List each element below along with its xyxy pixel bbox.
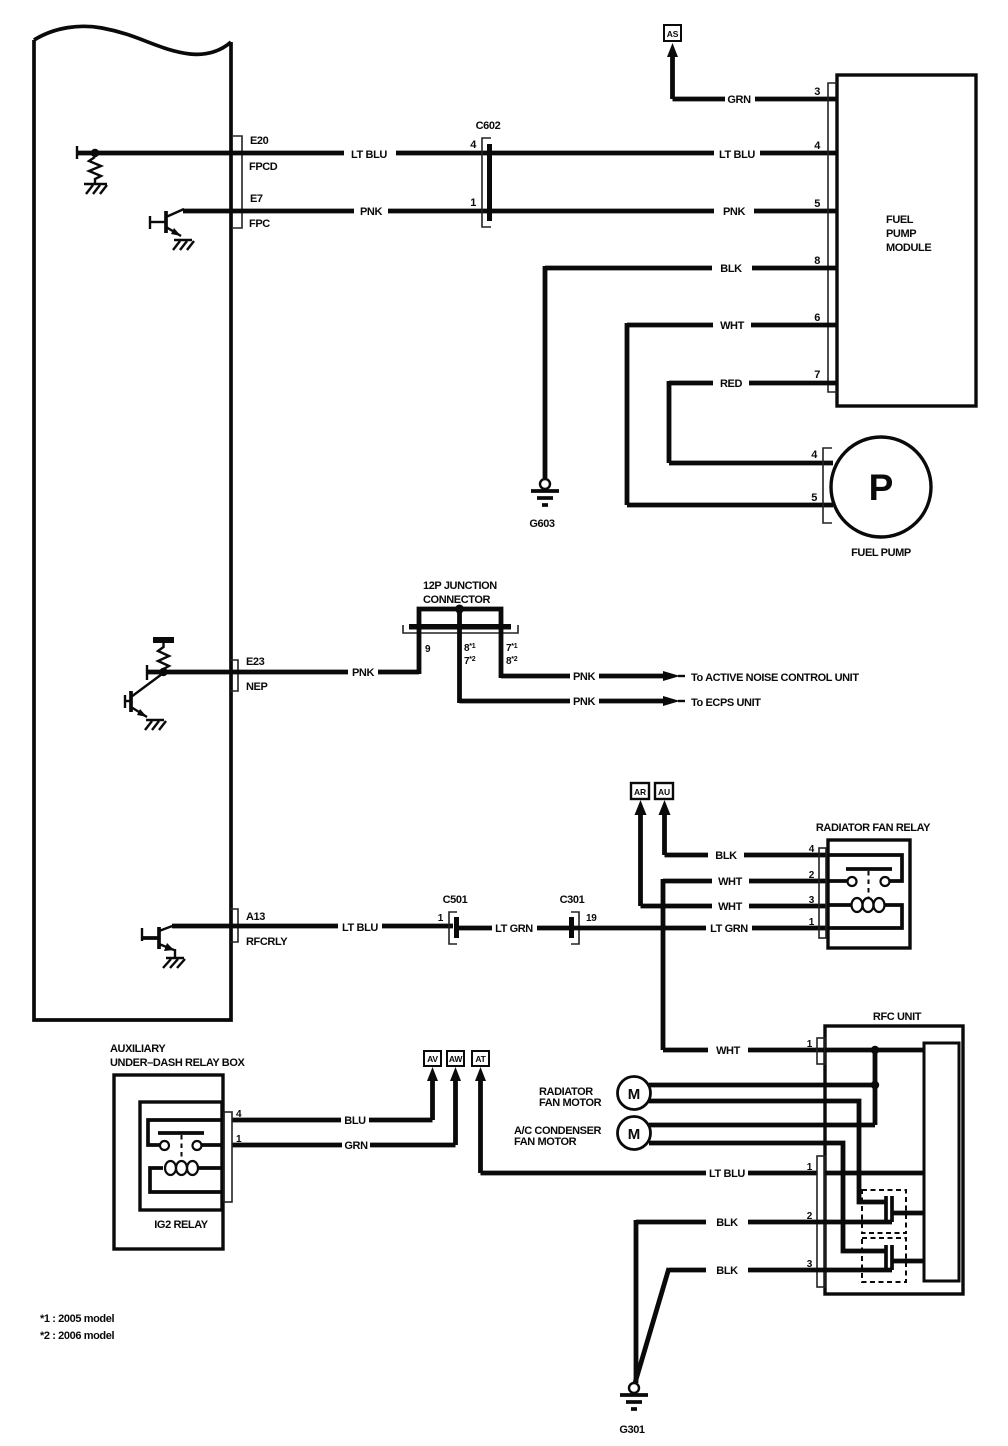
svg-text:C602: C602 [476,120,501,132]
resistor (NEP pull-up) [158,647,169,672]
connector C301 [569,912,579,944]
wire PNK to active noise control unit [501,671,685,681]
svg-text:1: 1 [236,1134,242,1145]
wire BLK inside RFC pin3 to FET2 [825,1268,892,1273]
connector bracket (fuel pump) [823,448,832,523]
node E23 internal: supply bar [153,640,174,648]
IG2 switch bar [158,1131,204,1135]
svg-text:P: P [869,467,894,508]
svg-text:RFCRLY: RFCRLY [246,936,288,948]
svg-text:AS: AS [667,29,679,39]
svg-text:4: 4 [809,844,815,855]
PCM/ECM main control module box (torn wavy top) [34,26,231,1020]
ground (NEP emitter) [145,720,166,730]
svg-text:1: 1 [807,1162,813,1173]
connector AR [631,783,649,799]
svg-text:LT BLU: LT BLU [709,1168,745,1180]
wire PNK to ECPS unit [460,696,686,706]
svg-text:G603: G603 [529,518,555,530]
relay internals: pin4 feed [828,855,902,881]
RFC inner module rect [924,1043,959,1281]
svg-text:E20: E20 [250,135,269,147]
IG2 coil [150,1161,222,1192]
transistor Q (FPC driver) base tick [149,216,151,229]
svg-text:IG2 RELAY: IG2 RELAY [154,1219,209,1231]
relay switch bar [846,867,892,871]
svg-text:3: 3 [814,86,820,98]
wire pin 8/7 stub (to ECPS) [457,629,462,703]
svg-text:5: 5 [814,198,820,210]
svg-text:3: 3 [807,1259,813,1270]
wire GRN to AS with arrow [667,43,837,99]
svg-text:LT BLU: LT BLU [351,149,387,161]
svg-text:GRN: GRN [727,94,751,106]
svg-text:6: 6 [814,312,820,324]
svg-text:AU: AU [658,787,670,797]
wire AR to WHT pin3 [635,800,829,906]
svg-text:FAN MOTOR: FAN MOTOR [539,1097,602,1109]
svg-text:RFC UNIT: RFC UNIT [873,1011,922,1023]
connector C602 [482,138,492,227]
wire PNK (E7 to fuel pump module pin 5) [183,209,837,214]
svg-text:2: 2 [807,1211,813,1222]
wire AU to BLK pin4 [659,800,829,855]
svg-text:PNK: PNK [573,696,595,708]
svg-text:AR: AR [634,787,646,797]
svg-text:3: 3 [809,895,815,906]
connector C501 [449,912,459,944]
relay contact right [881,877,890,886]
svg-text:CONNECTOR: CONNECTOR [423,594,491,606]
motor M a/c condenser fan motor [618,1117,651,1150]
wire pin 9 stub [417,629,422,674]
wire GRN (IG2 pin1 to AW) [232,1067,461,1145]
transistor Q (FPC driver) [150,209,184,236]
svg-text:LT GRN: LT GRN [495,923,533,935]
wire WHT (pin 6 to fuel pump pin 5) [627,323,837,505]
connector AU [655,783,673,799]
svg-text:MODULE: MODULE [886,242,931,254]
svg-text:BLK: BLK [716,1217,738,1229]
motor P fuel pump [831,437,931,537]
node E20 internal: supply tick [76,146,78,159]
svg-text:M: M [628,1126,641,1143]
svg-text:To ACTIVE NOISE CONTROL UNIT: To ACTIVE NOISE CONTROL UNIT [691,672,859,684]
svg-text:WHT: WHT [716,1045,741,1057]
wire LT GRN (C501 to C301) [459,926,570,931]
transistor Q (NEP) [125,674,162,717]
svg-text:PNK: PNK [723,206,745,218]
svg-text:*2 : 2006 model: *2 : 2006 model [40,1330,114,1342]
connector AV [424,1051,441,1066]
junction at E20 resistor [91,149,99,157]
wire BLU (IG2 pin4 to AV) [232,1067,438,1120]
pin label 8*1 7*2 [464,643,476,667]
svg-text:RADIATOR FAN RELAY: RADIATOR FAN RELAY [816,822,931,834]
svg-text:UNDER–DASH RELAY BOX: UNDER–DASH RELAY BOX [110,1057,245,1069]
svg-text:GRN: GRN [344,1140,368,1152]
svg-text:2: 2 [809,870,815,881]
svg-text:19: 19 [586,913,597,924]
svg-text:1: 1 [470,197,476,209]
svg-text:PUMP: PUMP [886,228,916,240]
svg-text:E7: E7 [250,193,263,205]
svg-text:AV: AV [427,1054,438,1064]
wire BLK (pin 8 to G603) [545,266,837,478]
wire LT GRN (C301 to radiator fan relay pin 1) [574,926,828,931]
IG2 relay internals: pin4 feed [148,1120,222,1145]
svg-text:C501: C501 [443,894,468,906]
IG2 contact right [193,1141,202,1150]
svg-text:AUXILIARY: AUXILIARY [110,1043,166,1055]
svg-text:AW: AW [449,1054,463,1064]
svg-text:BLK: BLK [716,1265,738,1277]
wire E20 internal [77,151,95,156]
wire BLK inside RFC pin2 to FET1 [825,1220,892,1225]
wire LT BLU (AT to RFC pin1) [475,1067,817,1173]
svg-text:WHT: WHT [720,320,745,332]
resistor (FPCD pull-up) [89,157,101,183]
transistor Q (RFCRLY driver) [141,925,175,957]
relay coil [828,898,902,928]
relay actuator dashed [868,871,870,897]
relay pin2 feed [828,879,847,883]
ground (FPC driver emitter) [173,240,194,250]
connector A13 bracket at module edge [229,909,238,942]
transistor FET1 (radiator fan driver, dashed) [862,1190,924,1233]
IG2 pin1 feed [202,1143,222,1147]
svg-text:1: 1 [438,913,444,924]
12P junction connector [403,580,518,633]
wire LT BLU inside RFC [825,1171,924,1176]
connector bracket (IG2 relay) [224,1112,232,1202]
IG2 contact left [160,1141,169,1150]
wire BLK (RFC pin3 to G301 diagonal) [635,1268,825,1383]
ground G301 [620,1383,648,1409]
wire E23 internal [147,670,231,675]
junction [871,1046,879,1054]
svg-text:1: 1 [807,1039,813,1050]
svg-text:4: 4 [236,1109,242,1120]
connector bracket (RFC pins 1-3) [817,1156,825,1287]
svg-text:BLK: BLK [720,263,742,275]
svg-text:PNK: PNK [573,671,595,683]
connector E20/E7 bracket at module edge [233,136,242,228]
wire WHT pin2 down to RFC pin1 [663,879,828,1050]
ground G603 [531,479,559,505]
ground (RFCRLY emitter) [163,958,185,968]
node E23 internal: left tick [146,665,148,680]
connector AW [447,1051,464,1066]
connector AT [472,1051,489,1066]
connector bracket (RFC pin 1 WHT) [817,1038,825,1064]
svg-text:LT GRN: LT GRN [710,923,748,935]
svg-text:12P JUNCTION: 12P JUNCTION [423,580,497,592]
svg-text:8: 8 [814,255,820,267]
svg-text:9: 9 [425,644,431,655]
svg-text:FPC: FPC [249,218,270,230]
wire PNK (E23 to 12P junction) [231,670,419,675]
svg-text:WHT: WHT [718,876,743,888]
transistor FET2 (a/c fan driver, dashed) [862,1238,924,1282]
svg-text:RED: RED [720,378,742,390]
svg-text:FUEL: FUEL [886,214,914,226]
svg-text:G301: G301 [619,1424,645,1436]
junction [871,1081,879,1089]
svg-text:1: 1 [809,917,815,928]
wire pin 7/8 stub (to ANC) [499,629,504,678]
svg-text:FUEL PUMP: FUEL PUMP [851,547,911,559]
svg-text:7: 7 [814,369,820,381]
motor M radiator fan motor [618,1077,651,1110]
svg-text:E23: E23 [246,656,265,668]
svg-text:AT: AT [475,1054,486,1064]
wire LT BLU (A13 to C501) [172,924,453,929]
svg-text:WHT: WHT [718,901,743,913]
svg-text:5: 5 [811,492,817,504]
wire WHT inside RFC [825,1048,924,1053]
svg-text:PNK: PNK [352,667,374,679]
connector bracket (radiator fan relay) [819,848,826,938]
wire radiator fan motor leads [649,1085,886,1202]
IG2 actuator dashed [181,1135,183,1161]
svg-text:PNK: PNK [360,206,382,218]
wire BLK (RFC pin2 to G301) [636,1220,825,1383]
connector bracket (fuel pump module) [828,83,837,392]
svg-text:FPCD: FPCD [249,161,278,173]
connector AS [664,25,681,41]
svg-text:*1 : 2005 model: *1 : 2005 model [40,1313,114,1325]
wire LT BLU (E20 to fuel pump module pin 4) [95,151,837,156]
pin label 7*1 8*2 [506,643,518,667]
relay K2 IG2 relay box [140,1102,222,1210]
wire a/c condenser fan motor leads [649,1125,886,1251]
svg-text:To ECPS UNIT: To ECPS UNIT [691,697,761,709]
svg-text:C301: C301 [560,894,585,906]
junction at E23 [159,668,167,676]
svg-text:LT BLU: LT BLU [719,149,755,161]
wire RED (pin 7 to fuel pump pin 4) [669,381,837,463]
ground (FPCD pull-up) [84,184,107,194]
relay contact left [848,877,857,886]
svg-text:A13: A13 [246,911,265,923]
svg-text:LT BLU: LT BLU [342,922,378,934]
svg-text:BLK: BLK [715,850,737,862]
svg-text:BLU: BLU [344,1115,366,1127]
fuel pump module U1 [837,75,976,406]
svg-text:M: M [628,1086,641,1103]
svg-text:FAN MOTOR: FAN MOTOR [514,1136,577,1148]
wire junction down to motors [873,1050,878,1125]
svg-text:NEP: NEP [246,681,267,693]
connector E23 bracket at module edge [229,660,238,691]
